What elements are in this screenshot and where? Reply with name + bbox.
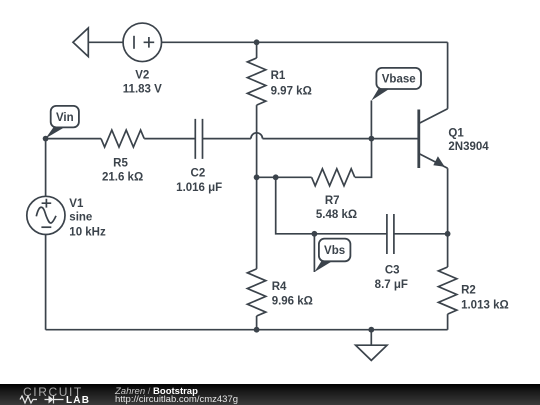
resistor R1 (247, 58, 265, 105)
resistor R4 (247, 269, 265, 316)
capacitor C2 (195, 119, 202, 159)
svg-text:21.6 kΩ: 21.6 kΩ (102, 172, 143, 184)
svg-text:9.96 kΩ: 9.96 kΩ (272, 295, 313, 307)
voltage source V2 (123, 23, 162, 62)
flag Vbs (314, 234, 350, 272)
wire right collector drop (447, 42, 449, 109)
svg-text:R2: R2 (461, 285, 476, 297)
junction R1/R4 column with R7 branch (254, 174, 260, 180)
voltage source V1 (27, 196, 65, 234)
svg-text:LAB: LAB (66, 395, 90, 405)
wire R5 to C2 (144, 138, 195, 140)
svg-text:8.7 μF: 8.7 μF (375, 279, 408, 291)
wire C3 branch (276, 177, 448, 234)
svg-text:5.48 kΩ: 5.48 kΩ (316, 209, 357, 221)
node Vbase junction (369, 136, 375, 142)
flag Vin (46, 106, 79, 138)
wire main signal line left (46, 138, 101, 140)
junction top rail / R1 (254, 39, 260, 45)
wire hop to base (263, 138, 419, 140)
resistor R5 (101, 130, 144, 147)
junction R4 bottom on ground rail (254, 327, 260, 333)
svg-text:C2: C2 (191, 168, 206, 180)
svg-text:Vbs: Vbs (324, 245, 345, 257)
svg-text:V1: V1 (69, 198, 84, 210)
wire emitter column (447, 168, 449, 330)
svg-text:R7: R7 (325, 195, 340, 207)
flag Vbase (371, 68, 421, 138)
svg-text:10 kHz: 10 kHz (69, 227, 106, 239)
svg-text:V2: V2 (135, 69, 149, 81)
resistor R7 (312, 169, 355, 186)
svg-text:R4: R4 (272, 281, 287, 293)
port arrow at V2 negative (73, 28, 88, 57)
transistor Q1 (419, 109, 448, 168)
svg-text:R1: R1 (271, 70, 286, 82)
junction emitter / C3 right (445, 231, 451, 237)
svg-text:2N3904: 2N3904 (448, 141, 489, 153)
svg-text:1.016 μF: 1.016 μF (176, 182, 222, 194)
wire R1-R4 vertical column (256, 42, 258, 329)
junction R7 left / C3 branch (273, 174, 279, 180)
wire top rail (88, 41, 447, 43)
svg-text:R5: R5 (113, 158, 128, 170)
node Vin junction (43, 136, 49, 142)
junction ground stem on rail (368, 327, 374, 333)
resistor R2 (438, 267, 456, 314)
wire hop over R1-R4 line (251, 133, 263, 139)
footer bar (0, 384, 540, 405)
wire left rail (45, 139, 47, 330)
svg-text:1.013 kΩ: 1.013 kΩ (461, 300, 509, 312)
svg-text:Q1: Q1 (448, 128, 464, 140)
svg-text:C3: C3 (385, 264, 400, 276)
node Vbs junction (312, 231, 318, 237)
capacitor C3 (387, 214, 394, 254)
svg-text:11.83 V: 11.83 V (123, 83, 162, 95)
wire R7 row (257, 139, 372, 178)
svg-text:Vin: Vin (56, 112, 74, 124)
svg-text:sine: sine (69, 212, 92, 224)
wire bottom rail (46, 329, 448, 331)
wire C2 to hop (203, 138, 251, 140)
svg-text:Vbase: Vbase (382, 74, 416, 86)
ground (356, 330, 387, 361)
CircuitLab logo (0, 384, 110, 405)
svg-text:9.97 kΩ: 9.97 kΩ (271, 86, 312, 98)
